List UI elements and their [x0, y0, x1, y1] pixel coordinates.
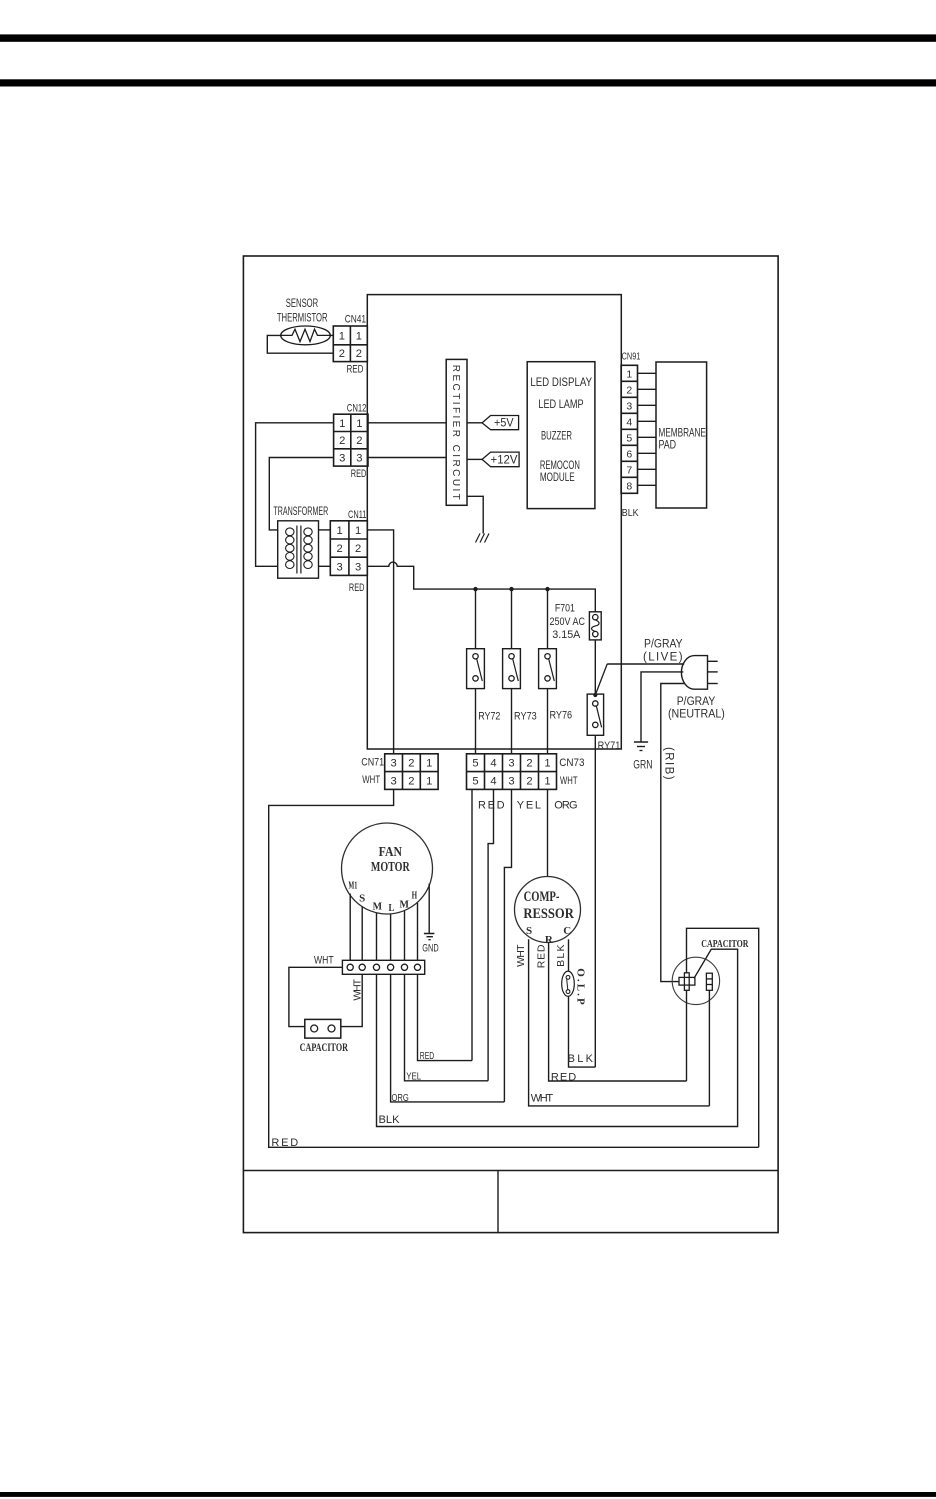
svg-text:7: 7 [626, 464, 632, 476]
svg-text:REMOCON: REMOCON [540, 460, 580, 472]
svg-text:BLK: BLK [379, 1114, 401, 1126]
svg-text:3: 3 [339, 452, 345, 464]
svg-text:3: 3 [508, 776, 514, 788]
svg-text:YEL: YEL [406, 1070, 421, 1082]
svg-text:2: 2 [339, 348, 345, 360]
svg-text:3: 3 [355, 561, 361, 573]
svg-text:5: 5 [472, 758, 478, 770]
svg-text:5: 5 [472, 776, 478, 788]
svg-text:CN71: CN71 [361, 756, 384, 768]
svg-text:1: 1 [356, 330, 362, 342]
svg-text:LED DISPLAY: LED DISPLAY [530, 377, 592, 389]
svg-text:YEL: YEL [517, 800, 541, 812]
svg-text:MOTOR: MOTOR [371, 860, 410, 875]
svg-text:LED LAMP: LED LAMP [538, 399, 584, 411]
svg-text:RY72: RY72 [478, 711, 500, 723]
svg-text:1: 1 [355, 525, 361, 537]
svg-text:TRANSFORMER: TRANSFORMER [273, 504, 328, 518]
svg-text:BUZZER: BUZZER [541, 431, 572, 443]
svg-text:3: 3 [356, 452, 362, 464]
svg-text:3: 3 [508, 758, 514, 770]
svg-text:RED: RED [420, 1050, 435, 1062]
svg-text:ORG: ORG [391, 1092, 408, 1104]
svg-text:(LIVE): (LIVE) [643, 652, 683, 664]
svg-text:ORG: ORG [554, 800, 577, 812]
svg-text:WHT: WHT [314, 955, 334, 967]
svg-text:M1: M1 [348, 881, 357, 892]
svg-text:BLK: BLK [622, 507, 639, 519]
svg-text:1: 1 [339, 418, 345, 430]
svg-text:S: S [359, 894, 366, 905]
svg-text:RED: RED [478, 800, 505, 812]
svg-text:SENSOR: SENSOR [286, 298, 318, 310]
svg-text:2: 2 [339, 435, 345, 447]
svg-text:250V AC: 250V AC [549, 616, 585, 628]
svg-text:RESSOR: RESSOR [523, 906, 574, 922]
svg-text:2: 2 [356, 435, 362, 447]
svg-text:2: 2 [408, 758, 414, 770]
svg-text:O.L.P: O.L.P [575, 968, 587, 1005]
svg-text:4: 4 [490, 776, 496, 788]
svg-text:2: 2 [408, 776, 414, 788]
svg-text:1: 1 [544, 758, 550, 770]
svg-text:RY73: RY73 [514, 711, 537, 723]
svg-text:CN12: CN12 [347, 403, 367, 415]
svg-text:3.15A: 3.15A [552, 629, 581, 641]
svg-text:RED: RED [535, 944, 547, 968]
svg-text:RECTIFIER CIRCUIT: RECTIFIER CIRCUIT [450, 365, 461, 500]
svg-text:COMP-: COMP- [524, 889, 560, 905]
svg-text:RED: RED [271, 1137, 298, 1149]
svg-text:WHT: WHT [362, 774, 380, 786]
svg-text:2: 2 [355, 543, 361, 555]
svg-text:RY71: RY71 [598, 740, 621, 752]
svg-text:3: 3 [390, 758, 396, 770]
svg-text:3: 3 [390, 776, 396, 788]
svg-text:P/GRAY: P/GRAY [677, 696, 716, 708]
svg-text:6: 6 [626, 448, 632, 460]
svg-text:3: 3 [336, 561, 342, 573]
svg-text:5: 5 [626, 432, 632, 444]
svg-text:1: 1 [544, 776, 550, 788]
svg-text:F701: F701 [555, 602, 575, 614]
svg-text:WHT: WHT [352, 978, 364, 1000]
svg-text:BLK: BLK [555, 945, 567, 967]
svg-text:MEMBRANE: MEMBRANE [659, 428, 707, 440]
svg-text:GRN: GRN [633, 760, 652, 772]
svg-text:(RIB): (RIB) [663, 747, 675, 780]
svg-text:CN11: CN11 [348, 509, 366, 521]
svg-text:1: 1 [336, 525, 342, 537]
svg-text:M: M [399, 900, 409, 911]
svg-text:RED: RED [351, 468, 367, 480]
svg-text:THERMISTOR: THERMISTOR [277, 312, 328, 324]
svg-text:MODULE: MODULE [540, 472, 575, 484]
svg-text:S: S [526, 925, 532, 937]
svg-text:L: L [389, 903, 395, 914]
svg-text:2: 2 [526, 776, 532, 788]
svg-text:GND: GND [422, 942, 438, 954]
svg-text:WHT: WHT [515, 944, 527, 967]
svg-text:CAPACITOR: CAPACITOR [701, 938, 749, 950]
svg-text:1: 1 [339, 330, 345, 342]
svg-text:PAD: PAD [659, 440, 677, 452]
svg-text:1: 1 [356, 418, 362, 430]
svg-text:3: 3 [626, 400, 632, 412]
svg-text:RY76: RY76 [549, 709, 572, 721]
svg-text:2: 2 [356, 348, 362, 360]
svg-text:WHT: WHT [560, 775, 578, 787]
svg-text:+5V: +5V [494, 418, 514, 430]
svg-text:+12V: +12V [491, 454, 518, 466]
svg-text:M: M [373, 901, 383, 912]
svg-text:P/GRAY: P/GRAY [644, 639, 683, 651]
svg-text:RED: RED [346, 364, 363, 376]
svg-text:1: 1 [426, 776, 432, 788]
svg-text:R: R [545, 934, 554, 946]
svg-text:CN41: CN41 [345, 314, 366, 326]
svg-text:C: C [563, 925, 571, 937]
svg-text:2: 2 [526, 758, 532, 770]
svg-text:CN73: CN73 [559, 757, 584, 769]
svg-text:RED: RED [349, 582, 365, 594]
svg-text:H: H [412, 891, 418, 902]
svg-text:8: 8 [626, 480, 632, 492]
svg-text:4: 4 [626, 416, 632, 428]
svg-text:1: 1 [626, 368, 632, 380]
svg-text:4: 4 [490, 758, 496, 770]
svg-text:BLK: BLK [568, 1053, 594, 1065]
svg-text:RED: RED [551, 1071, 576, 1083]
svg-text:CAPACITOR: CAPACITOR [300, 1042, 349, 1054]
svg-text:CN91: CN91 [622, 352, 641, 363]
svg-text:(NEUTRAL): (NEUTRAL) [668, 709, 725, 721]
svg-text:2: 2 [336, 543, 342, 555]
svg-text:1: 1 [426, 758, 432, 770]
svg-text:2: 2 [626, 384, 632, 396]
svg-text:FAN: FAN [379, 845, 402, 860]
svg-text:WHT: WHT [531, 1092, 554, 1104]
